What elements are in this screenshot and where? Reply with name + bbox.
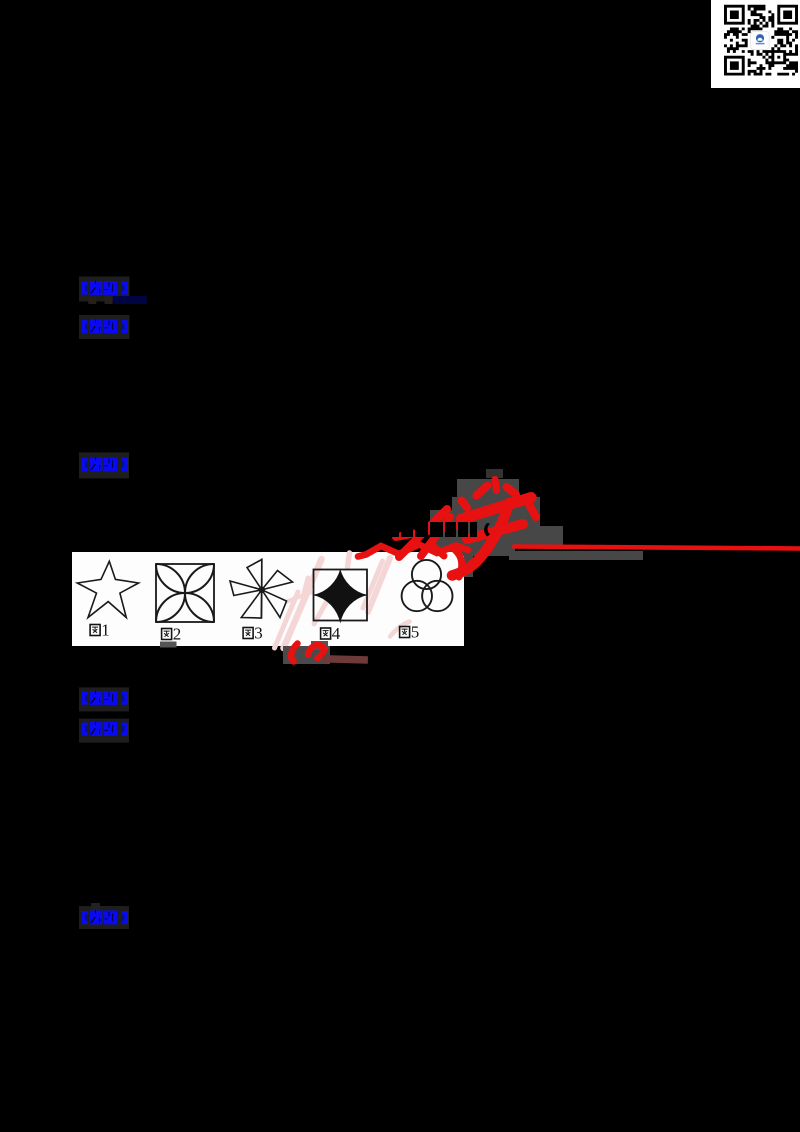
svg-text:1: 1 [101, 621, 110, 640]
svg-text:2: 2 [173, 625, 182, 644]
svg-text:4: 4 [332, 624, 341, 643]
svg-text:5: 5 [411, 623, 420, 642]
svg-text:3: 3 [254, 624, 262, 643]
